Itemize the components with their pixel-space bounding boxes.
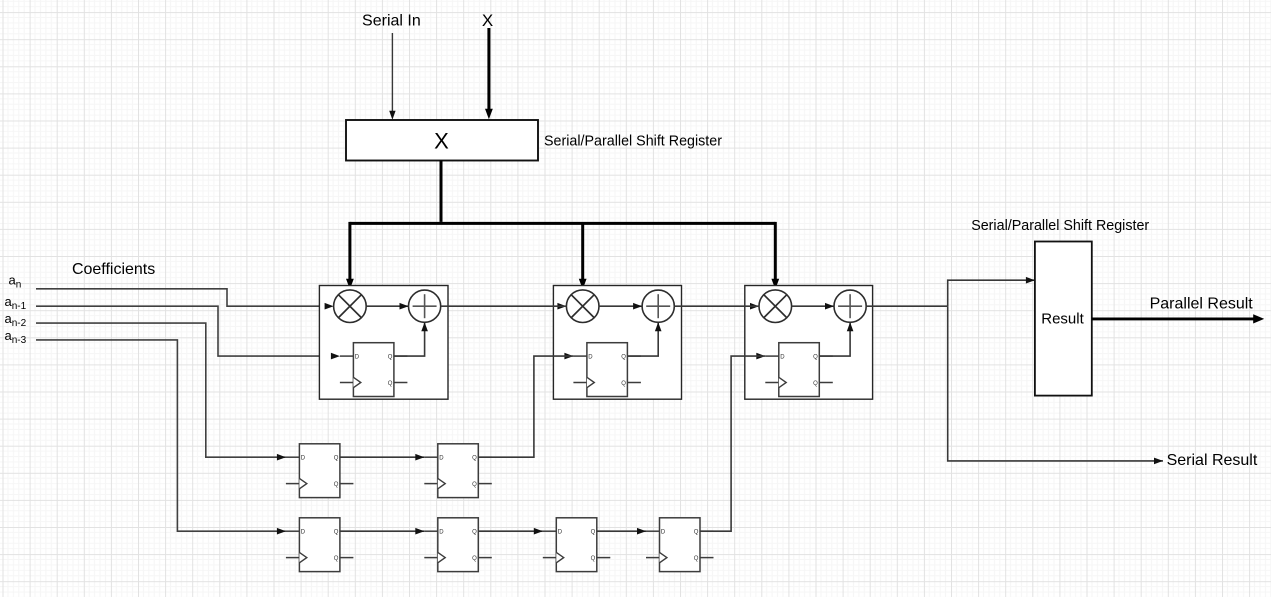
svg-text:Q: Q bbox=[591, 556, 596, 562]
svg-text:D: D bbox=[661, 530, 666, 536]
svg-text:Q: Q bbox=[472, 530, 477, 536]
svg-text:Q: Q bbox=[472, 482, 477, 488]
svg-text:D: D bbox=[588, 355, 593, 361]
svg-text:Q: Q bbox=[813, 355, 818, 361]
svg-text:Parallel Result: Parallel Result bbox=[1150, 295, 1254, 312]
svg-text:Q: Q bbox=[472, 456, 477, 462]
svg-text:Q: Q bbox=[334, 556, 339, 562]
svg-text:Q: Q bbox=[388, 355, 393, 361]
svg-text:Q: Q bbox=[694, 556, 699, 562]
svg-text:Serial/Parallel Shift Register: Serial/Parallel Shift Register bbox=[971, 218, 1149, 234]
svg-text:Q: Q bbox=[472, 556, 477, 562]
svg-text:Serial In: Serial In bbox=[362, 13, 421, 30]
svg-text:Q: Q bbox=[388, 381, 393, 387]
svg-text:Q: Q bbox=[621, 355, 626, 361]
svg-text:D: D bbox=[301, 530, 306, 536]
svg-text:D: D bbox=[301, 456, 306, 462]
svg-text:Q: Q bbox=[334, 530, 339, 536]
svg-text:Coefficients: Coefficients bbox=[72, 261, 155, 278]
svg-text:D: D bbox=[780, 355, 785, 361]
svg-text:Q: Q bbox=[694, 530, 699, 536]
svg-text:D: D bbox=[439, 456, 444, 462]
svg-text:D: D bbox=[355, 355, 360, 361]
svg-text:X: X bbox=[482, 11, 493, 30]
svg-text:Q: Q bbox=[621, 381, 626, 387]
svg-text:Result: Result bbox=[1041, 310, 1084, 327]
svg-text:Q: Q bbox=[334, 456, 339, 462]
svg-text:Serial Result: Serial Result bbox=[1167, 452, 1258, 469]
svg-text:D: D bbox=[439, 530, 444, 536]
svg-text:Q: Q bbox=[591, 530, 596, 536]
svg-text:Q: Q bbox=[334, 482, 339, 488]
svg-text:X: X bbox=[434, 128, 449, 153]
svg-text:Serial/Parallel Shift Register: Serial/Parallel Shift Register bbox=[544, 134, 722, 150]
svg-text:D: D bbox=[558, 530, 563, 536]
svg-text:Q: Q bbox=[813, 381, 818, 387]
